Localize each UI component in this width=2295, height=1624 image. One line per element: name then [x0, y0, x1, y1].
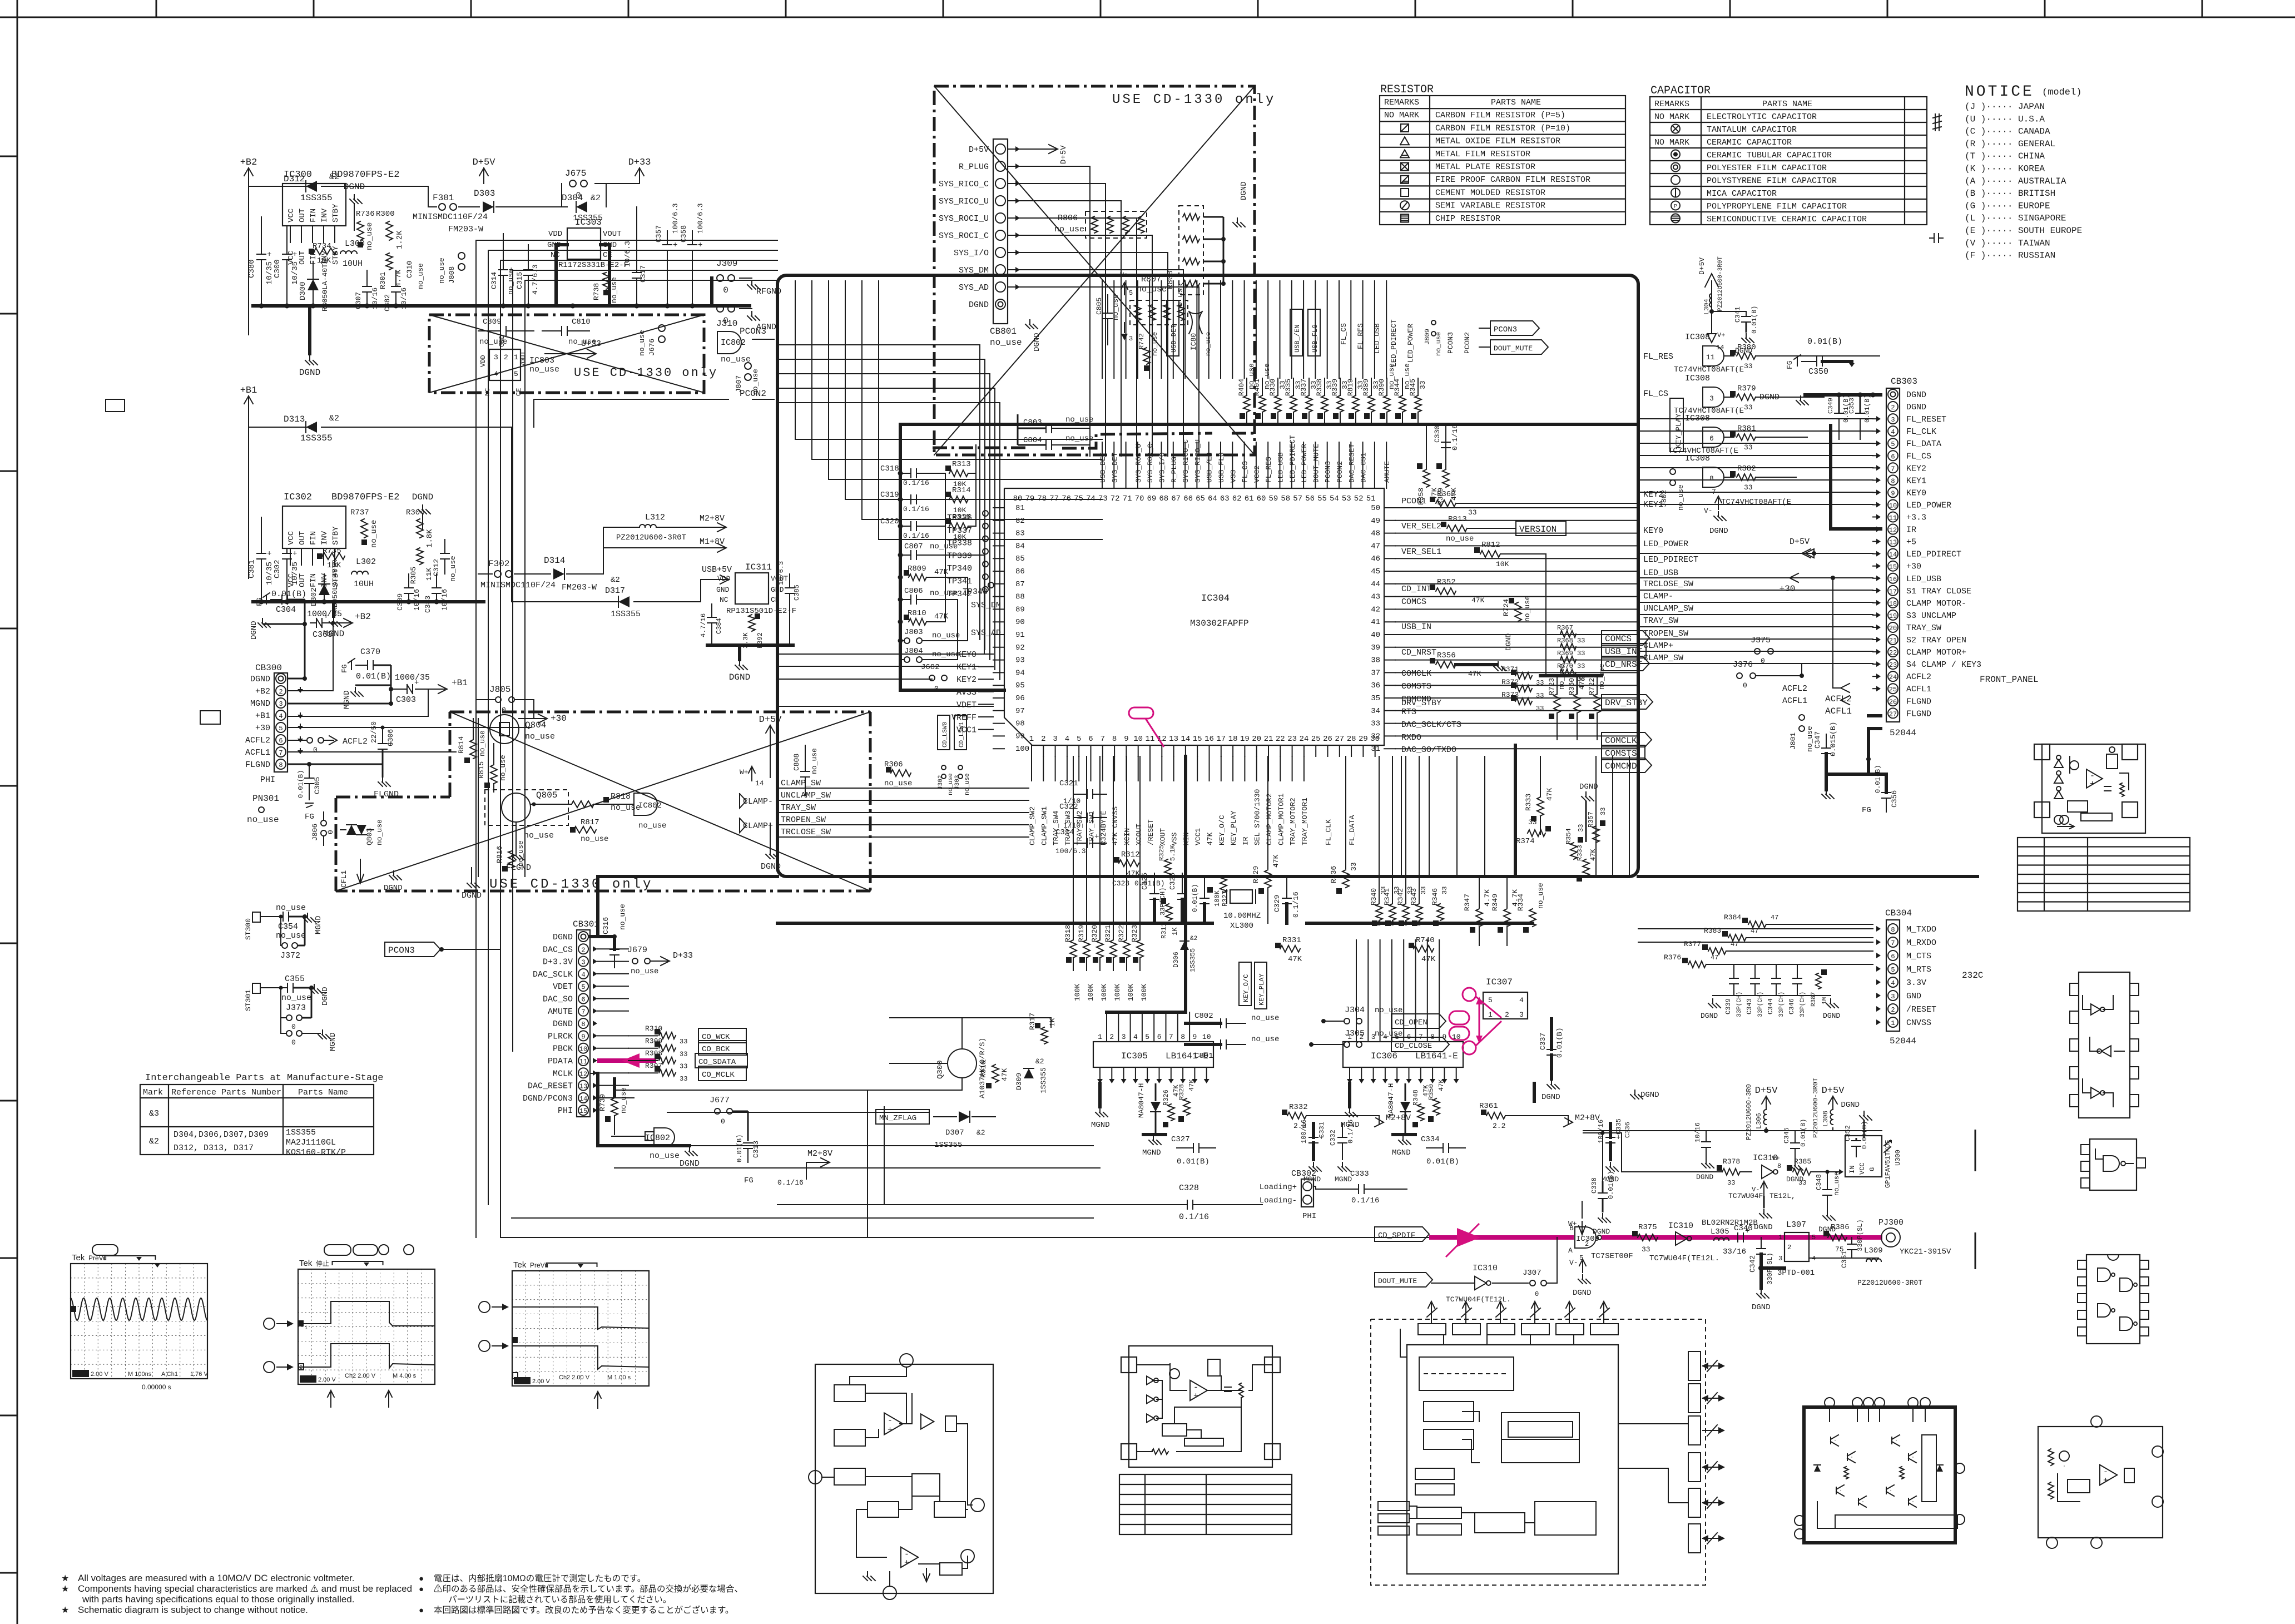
svg-text:88: 88 — [1015, 593, 1025, 602]
svg-text:SEL S700/1330: SEL S700/1330 — [1253, 789, 1262, 845]
jumper J309 RFGND — [717, 275, 723, 281]
svg-text:DGND: DGND — [384, 884, 403, 893]
svg-text:POLYESTER FILM CAPACITOR: POLYESTER FILM CAPACITOR — [1707, 164, 1827, 173]
ground DGND cb301 — [598, 1144, 690, 1147]
svg-text:11: 11 — [1146, 735, 1155, 744]
svg-text:3: 3 — [1891, 416, 1895, 424]
diode D309 — [1024, 1068, 1034, 1078]
svg-text:J809: J809 — [1424, 329, 1431, 345]
capacitor C351 330P(SL) — [1847, 1244, 1856, 1245]
svg-text:TROPEN_SW: TROPEN_SW — [781, 815, 826, 825]
svg-text:FL_CS: FL_CS — [1906, 452, 1931, 461]
svg-text:0: 0 — [723, 285, 728, 295]
svg-text:LED_PDIRECT: LED_PDIRECT — [1288, 435, 1297, 483]
svg-text:PCON1: PCON1 — [1401, 497, 1426, 506]
svg-text:C808: C808 — [792, 754, 801, 771]
svg-text:PDATA: PDATA — [548, 1057, 573, 1066]
power V+3 arrow — [1121, 334, 1128, 340]
svg-text:SYS_DM: SYS_DM — [971, 601, 1001, 610]
svg-text:MA2J1110GL: MA2J1110GL — [286, 1138, 336, 1147]
crystal XL300 — [1230, 890, 1252, 903]
power M2+8V mid — [1357, 1116, 1379, 1125]
step waveform ch2 — [299, 1344, 434, 1368]
svg-text:no_use: no_use — [1065, 415, 1093, 424]
svg-text:R_PLUG: R_PLUG — [959, 162, 989, 172]
wires CB300 pins — [288, 678, 305, 680]
svg-text:KEY1: KEY1 — [1906, 476, 1926, 486]
svg-text:TRAY_SW: TRAY_SW — [781, 803, 816, 813]
svg-text:NO MARK: NO MARK — [1654, 112, 1689, 122]
svg-text:J372: J372 — [280, 951, 300, 960]
svg-text:R342: R342 — [1396, 888, 1405, 905]
svg-text:IC80: IC80 — [1189, 333, 1198, 350]
svg-text:STBY: STBY — [331, 526, 340, 545]
svg-text:R810: R810 — [908, 609, 926, 618]
svg-text:1SS355: 1SS355 — [1039, 1067, 1048, 1093]
svg-text:CB300: CB300 — [255, 663, 282, 673]
wire q300 row — [890, 1017, 1051, 1018]
svg-text:10: 10 — [579, 1046, 587, 1053]
oscilloscope trace 1 — [71, 1264, 207, 1379]
svg-text:Parts Name: Parts Name — [298, 1088, 348, 1097]
svg-text:R819: R819 — [1346, 379, 1355, 396]
svg-text:FL_CS: FL_CS — [1643, 389, 1668, 399]
svg-text:4: 4 — [1065, 735, 1069, 744]
svg-text:V-: V- — [1704, 507, 1713, 515]
svg-text:YKC21-3915V: YKC21-3915V — [1900, 1247, 1951, 1256]
svg-text:64: 64 — [1208, 494, 1217, 503]
svg-text:FIRE PROOF CARBON FILM RESISTO: FIRE PROOF CARBON FILM RESISTOR — [1435, 175, 1590, 185]
ic block inverters B — [2079, 972, 2130, 1118]
svg-text:SYS_RICO_C: SYS_RICO_C — [939, 180, 989, 189]
svg-text:+: + — [2103, 1476, 2108, 1486]
svg-text:no_use: no_use — [619, 1087, 628, 1113]
resistor R334 no_use — [1529, 909, 1536, 927]
capacitor C306 22/50 — [378, 743, 387, 744]
scope2 arrows below — [330, 1393, 331, 1407]
svg-text:16: 16 — [1204, 735, 1214, 744]
resistor R306 no_use — [891, 770, 911, 776]
svg-text:R401: R401 — [1253, 379, 1261, 396]
svg-text:R_PLUG: R_PLUG — [1170, 457, 1178, 483]
capacitor C357 100/6.3 — [663, 244, 672, 245]
svg-text:32: 32 — [1371, 732, 1380, 741]
svg-text:IC308: IC308 — [1685, 333, 1710, 342]
svg-text:PZ2012U600-3R0T: PZ2012U600-3R0T — [1717, 256, 1724, 311]
block F internals — [1835, 1440, 1836, 1441]
jumper ACFL2 out — [307, 737, 313, 743]
svg-text:31: 31 — [1371, 745, 1380, 754]
svg-text:NOTICE: NOTICE — [1965, 83, 2034, 101]
table 232C rows — [2018, 838, 2190, 911]
svg-text:COMSTS: COMSTS — [1401, 682, 1431, 691]
power D+5V cb303 — [1805, 549, 1814, 558]
tag KEY_O/C vertical — [1239, 962, 1251, 1006]
svg-text:IC303: IC303 — [575, 217, 602, 227]
svg-text:C342: C342 — [1748, 1255, 1757, 1273]
svg-text:IC803: IC803 — [529, 356, 554, 365]
svg-text:82: 82 — [1015, 517, 1025, 526]
svg-text:C305: C305 — [313, 777, 321, 794]
svg-text:96: 96 — [1015, 694, 1025, 703]
svg-text:REMARKS: REMARKS — [1654, 100, 1689, 109]
svg-text:IC304: IC304 — [1201, 593, 1230, 604]
svg-text:PCON2: PCON2 — [1463, 332, 1471, 354]
svg-text:J801: J801 — [1789, 732, 1797, 750]
svg-text:R736: R736 — [356, 210, 375, 219]
svg-text:65: 65 — [1196, 494, 1205, 503]
svg-text:36: 36 — [1371, 681, 1380, 690]
svg-text:0: 0 — [326, 830, 335, 834]
svg-text:2: 2 — [1891, 1006, 1895, 1014]
svg-text:+: + — [2090, 779, 2095, 789]
svg-text:8: 8 — [1709, 474, 1714, 483]
tag CD_LSW0 vertical — [938, 715, 950, 750]
svg-text:C348: C348 — [1815, 1174, 1823, 1190]
svg-text:L306: L306 — [1755, 1113, 1763, 1129]
svg-text:USB+5V: USB+5V — [702, 565, 732, 575]
svg-text:33: 33 — [1419, 380, 1427, 389]
ground DGND IC302 — [422, 505, 423, 509]
svg-text:R722: R722 — [1588, 678, 1596, 695]
svg-text:no_use: no_use — [884, 779, 912, 788]
svg-text:SYS_AD: SYS_AD — [959, 283, 989, 293]
svg-text:FG: FG — [744, 1176, 754, 1185]
capacitor C IC306 — [1443, 1143, 1444, 1152]
svg-text:R735: R735 — [323, 547, 341, 556]
svg-text:USB_/EN: USB_/EN — [1293, 325, 1301, 353]
svg-text:GND: GND — [498, 335, 506, 347]
svg-text:9: 9 — [1891, 489, 1895, 497]
svg-text:86: 86 — [1015, 567, 1025, 576]
svg-text:1K: 1K — [1171, 927, 1179, 935]
svg-text:R370: R370 — [1557, 662, 1573, 670]
svg-text:FLGND: FLGND — [245, 760, 270, 770]
capacitor C383 10/16 — [432, 587, 441, 588]
svg-text:VCC: VCC — [287, 531, 296, 545]
resistors R358 R359 47K — [1423, 469, 1430, 487]
svg-text:no_use: no_use — [524, 831, 554, 840]
svg-text:C806: C806 — [904, 587, 923, 596]
svg-text:no_use: no_use — [1251, 1035, 1279, 1044]
svg-text:R372: R372 — [1501, 678, 1519, 686]
jumper J676 no_use — [658, 325, 665, 331]
svg-text:0.01(B): 0.01(B) — [356, 672, 391, 681]
block I dashed big — [1371, 1319, 1706, 1585]
svg-text:&3: &3 — [149, 1109, 159, 1118]
svg-text:Ch2 2.00 V: Ch2 2.00 V — [345, 1373, 376, 1379]
svg-text:RP131S501D-E2-F: RP131S501D-E2-F — [726, 607, 796, 616]
resistor R392 3.3K — [749, 615, 755, 631]
wires CB301 to center — [628, 1035, 657, 1036]
svg-text:TROPEN_SW: TROPEN_SW — [1643, 629, 1688, 638]
diode Q803 no_use — [346, 825, 356, 835]
heavy rail 1820 under crystal — [1107, 1011, 1186, 1014]
svg-text:no_use: no_use — [1112, 294, 1120, 320]
svg-text:TC74VHCT08AFT(E: TC74VHCT08AFT(E — [1721, 498, 1791, 507]
svg-text:FL_RES: FL_RES — [1265, 457, 1273, 483]
capacitor C384 4.7/16 — [707, 617, 716, 618]
svg-text:USB_INT: USB_INT — [1605, 647, 1642, 657]
svg-text:R336: R336 — [1330, 866, 1338, 883]
svg-text:C334: C334 — [1421, 1135, 1440, 1144]
svg-text:RTS: RTS — [1401, 707, 1416, 717]
svg-text:55: 55 — [1317, 494, 1327, 503]
svg-text:33: 33 — [1420, 887, 1427, 894]
power V+ 14 ic308 — [1707, 334, 1716, 343]
svg-text:R317: R317 — [1028, 1013, 1037, 1030]
capacitor C801 no_use — [1220, 1040, 1221, 1049]
svg-text:R329: R329 — [1252, 866, 1260, 883]
svg-text:GND: GND — [716, 586, 730, 594]
svg-text:26: 26 — [1323, 735, 1332, 744]
svg-text:R339: R339 — [1331, 379, 1339, 396]
svg-text:26: 26 — [1889, 698, 1897, 706]
svg-text:BD9870FPS-E2: BD9870FPS-E2 — [331, 170, 399, 180]
svg-text:M2+8V: M2+8V — [1575, 1113, 1600, 1123]
block I internals — [1419, 1357, 1514, 1390]
svg-text:R354: R354 — [1565, 828, 1573, 844]
ground MGND IC306 diode — [1393, 1133, 1415, 1136]
svg-text:IC306: IC306 — [1371, 1051, 1397, 1061]
ic block opamp A — [2042, 744, 2145, 833]
svg-text:14: 14 — [1716, 344, 1724, 351]
svg-text:CD_CLOSE: CD_CLOSE — [1395, 1042, 1432, 1051]
svg-text:ACFL2: ACFL2 — [245, 736, 270, 745]
svg-text:no_use: no_use — [1536, 883, 1545, 909]
svg-text:0.015(B): 0.015(B) — [1829, 722, 1837, 756]
svg-text:44: 44 — [1371, 580, 1380, 589]
svg-text:VDET: VDET — [956, 700, 977, 710]
svg-text:USB_FLG: USB_FLG — [1217, 452, 1226, 483]
resistor R374 33 — [1528, 830, 1545, 836]
capacitor C356 0.01(B) — [1882, 792, 1891, 793]
svg-text:C381: C381 — [247, 560, 256, 578]
svg-text:33: 33 — [1536, 679, 1544, 687]
svg-text:47K: 47K — [1468, 670, 1481, 678]
svg-text:+30: +30 — [1780, 584, 1796, 594]
wires CB801 bus — [1020, 166, 1090, 456]
svg-text:VCC1: VCC1 — [1194, 828, 1202, 845]
wire u300 in — [1839, 1169, 1843, 1175]
pink overlay IC307 — [1463, 988, 1476, 1001]
wire verticals under right fan — [1401, 756, 1402, 877]
svg-text:NO MARK: NO MARK — [1384, 111, 1419, 120]
svg-text:M_CTS: M_CTS — [1906, 952, 1931, 961]
svg-text:KEY1: KEY1 — [956, 663, 977, 672]
svg-text:DAC_CS1: DAC_CS1 — [1360, 452, 1368, 483]
svg-text:C355: C355 — [285, 974, 305, 984]
svg-text:J675: J675 — [565, 169, 586, 179]
svg-text:+B1: +B1 — [240, 385, 257, 396]
svg-text:27: 27 — [1889, 710, 1897, 718]
svg-text:+: + — [673, 241, 677, 250]
svg-text:TP341: TP341 — [947, 577, 972, 586]
svg-text:C347: C347 — [1813, 731, 1822, 749]
svg-text:COMSTS: COMSTS — [1605, 749, 1637, 759]
svg-text:6: 6 — [279, 737, 282, 745]
svg-text:DOUT_MUTE: DOUT_MUTE — [1378, 1277, 1417, 1285]
svg-text:+3.3: +3.3 — [1906, 513, 1926, 523]
svg-text:MGND: MGND — [1392, 1148, 1411, 1157]
svg-text:0: 0 — [502, 706, 506, 714]
svg-text:+: + — [293, 549, 297, 558]
svg-text:LED_USB: LED_USB — [1643, 568, 1678, 578]
svg-text:USB_FLG: USB_FLG — [1311, 325, 1319, 353]
svg-text:GND: GND — [1906, 992, 1921, 1001]
svg-text:7: 7 — [1891, 939, 1895, 947]
svg-text:C323: C323 — [1112, 879, 1129, 888]
svg-text:3: 3 — [1709, 394, 1714, 403]
svg-text:VOUT: VOUT — [519, 351, 527, 367]
svg-text:TRAY_MOTOR1: TRAY_MOTOR1 — [1301, 798, 1309, 845]
resistor R816 no_use — [508, 851, 515, 868]
svg-text:no_use: no_use — [581, 835, 608, 844]
svg-text:LED_POWER: LED_POWER — [1406, 324, 1415, 363]
svg-text:R389: R389 — [1362, 379, 1370, 396]
capacitor C380 10/35 — [257, 254, 266, 255]
svg-text:FLGND: FLGND — [1906, 709, 1931, 719]
svg-text:KEY_O/C: KEY_O/C — [1242, 974, 1250, 1002]
wire horizontals mid left — [614, 1145, 1093, 1146]
svg-text:DGND/PCON3: DGND/PCON3 — [523, 1094, 573, 1103]
svg-text:LED_PDIRECT: LED_PDIRECT — [1643, 555, 1698, 565]
svg-text:R335: R335 — [1284, 379, 1292, 396]
svg-text:38: 38 — [1371, 656, 1380, 665]
dash notch segments — [933, 447, 1026, 449]
svg-text:CLAMP+: CLAMP+ — [1643, 641, 1673, 651]
svg-text:C382: C382 — [383, 294, 391, 311]
svg-text:S2 TRAY OPEN: S2 TRAY OPEN — [1906, 636, 1966, 645]
resistor R332 2.2 — [1287, 1112, 1306, 1119]
svg-text:UNCLAMP_SW: UNCLAMP_SW — [1643, 604, 1693, 613]
svg-text:no_use: no_use — [932, 631, 960, 640]
svg-text:47: 47 — [1371, 542, 1380, 551]
svg-text:CLAMP_SW: CLAMP_SW — [781, 779, 821, 788]
svg-text:DGND: DGND — [1754, 1223, 1773, 1232]
svg-text:(A )····· AUSTRALIA: (A )····· AUSTRALIA — [1965, 176, 2066, 186]
pad ST301 — [252, 983, 260, 993]
svg-text:R331: R331 — [1282, 936, 1301, 945]
resistor R742 no_use — [1143, 348, 1150, 364]
svg-text:9: 9 — [1192, 1033, 1197, 1041]
svg-text:R817: R817 — [581, 818, 599, 827]
resistors R367 R368 R369 R370 — [1560, 631, 1576, 637]
svg-text:C332: C332 — [1329, 1130, 1337, 1146]
svg-text:D309: D309 — [1015, 1073, 1023, 1090]
svg-text:37: 37 — [1371, 669, 1380, 677]
svg-text:2.00 V: 2.00 V — [318, 1377, 336, 1383]
resistor R736 — [357, 221, 364, 240]
svg-text:R321: R321 — [1104, 925, 1112, 942]
pink wire PDATA — [597, 1058, 656, 1063]
svg-text:SYS_ROC_U: SYS_ROC_U — [1134, 444, 1143, 483]
tags CLAMP hex — [740, 794, 746, 808]
svg-text:Tek: Tek — [513, 1260, 527, 1270]
svg-text:C336: C336 — [1624, 1122, 1632, 1138]
resistor R336 33 — [1342, 870, 1349, 888]
svg-text:92: 92 — [1015, 643, 1025, 652]
svg-text:COMCMD: COMCMD — [1401, 695, 1431, 704]
svg-text:M30302FAPFP: M30302FAPFP — [1190, 618, 1249, 628]
svg-text:FG: FG — [305, 813, 314, 821]
svg-text:C803: C803 — [1023, 418, 1042, 427]
svg-text:TC74VHCT08AFT(E: TC74VHCT08AFT(E — [1674, 365, 1744, 374]
svg-text:R348: R348 — [1412, 1090, 1420, 1106]
svg-text:R324BYTE: R324BYTE — [1099, 810, 1108, 845]
svg-text:KEY0: KEY0 — [1906, 488, 1926, 498]
svg-text:2.2: 2.2 — [1293, 1122, 1306, 1130]
tag USB_/EN vertical — [1290, 309, 1302, 356]
svg-text:3: 3 — [1053, 735, 1057, 744]
svg-text:R338: R338 — [1315, 379, 1324, 396]
svg-text:●: ● — [419, 1606, 424, 1615]
svg-text:DRV_STBY: DRV_STBY — [1605, 698, 1648, 708]
svg-text:J677: J677 — [710, 1096, 730, 1105]
svg-text:FM203-W: FM203-W — [562, 583, 597, 592]
connector CB801 no_use — [993, 139, 1008, 324]
svg-text:47K: 47K — [1000, 1068, 1009, 1081]
svg-text:83: 83 — [1015, 529, 1025, 538]
svg-text:R357: R357 — [1587, 811, 1595, 828]
svg-text:R742: R742 — [1138, 333, 1146, 349]
svg-text:0: 0 — [1743, 681, 1747, 690]
power D+5V — [483, 168, 484, 184]
jumper J801 no_use — [1799, 715, 1805, 720]
svg-text:1M: 1M — [1822, 997, 1828, 1004]
svg-text:R375: R375 — [1638, 1223, 1657, 1232]
svg-text:SYS_I/O: SYS_I/O — [954, 249, 989, 258]
svg-text:IR: IR — [1906, 526, 1916, 535]
resistor R333b 47K — [1583, 859, 1589, 876]
svg-text:100K: 100K — [1113, 984, 1122, 1001]
svg-text:R311: R311 — [1160, 923, 1168, 939]
svg-text:0.01(B): 0.01(B) — [297, 770, 305, 798]
svg-text:USB_DET: USB_DET — [1099, 452, 1107, 483]
ground DGND st301 — [314, 984, 315, 989]
svg-text:CLAMP MOTOR-: CLAMP MOTOR- — [1906, 599, 1966, 608]
svg-text:FIN: FIN — [309, 573, 318, 587]
svg-text:R739: R739 — [598, 1094, 607, 1111]
capacitor C809 no_use — [500, 326, 501, 335]
svg-text:R360: R360 — [1568, 678, 1576, 695]
ground MGND st300 — [307, 913, 308, 918]
svg-text:R377: R377 — [1684, 940, 1701, 948]
svg-text:DGND: DGND — [680, 1159, 700, 1169]
svg-text:R318: R318 — [1064, 925, 1072, 942]
diode D312 — [249, 186, 311, 187]
svg-text:L300: L300 — [345, 239, 365, 249]
svg-text:6: 6 — [1157, 1033, 1162, 1041]
svg-text:52044: 52044 — [1890, 1036, 1916, 1046]
svg-text:C300: C300 — [273, 259, 282, 278]
svg-text:SYS_ROCI_C: SYS_ROCI_C — [939, 231, 989, 241]
svg-text:VCC: VCC — [287, 209, 296, 222]
svg-text:R362: R362 — [1437, 490, 1456, 499]
svg-text:C343: C343 — [1746, 998, 1753, 1014]
svg-text:97: 97 — [1015, 707, 1025, 716]
capacitor group C339 C343 C344 C346 — [1729, 978, 1738, 979]
svg-text:18: 18 — [1889, 600, 1897, 608]
svg-text:R369: R369 — [1557, 650, 1573, 657]
power D+5V in box2 — [770, 725, 771, 741]
resistor R810 47K — [909, 618, 926, 625]
fuse F301 — [439, 204, 445, 210]
svg-text:no_use: no_use — [631, 967, 658, 976]
svg-text:R333: R333 — [1576, 845, 1584, 861]
power USB+5V arrow — [701, 580, 728, 602]
svg-text:C324: C324 — [1055, 828, 1074, 837]
